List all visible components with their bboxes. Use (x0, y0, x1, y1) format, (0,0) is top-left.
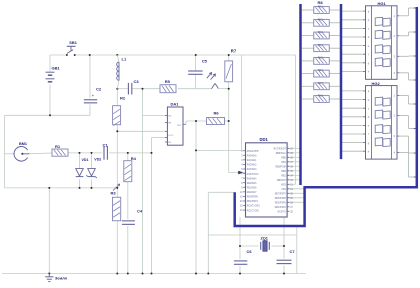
svg-text:DD1: DD1 (260, 137, 269, 142)
svg-text:RA1/AN1: RA1/AN1 (247, 159, 257, 162)
svg-text:0.7%: 0.7% (168, 135, 173, 137)
svg-text:R8.3: R8.3 (318, 32, 324, 34)
svg-text:L1: L1 (122, 57, 127, 62)
svg-text:RB0/INT: RB0/INT (277, 180, 286, 182)
svg-text:R8.6: R8.6 (318, 70, 324, 72)
svg-text:RD6/PSP6: RD6/PSP6 (275, 198, 287, 200)
svg-text:R2: R2 (120, 96, 126, 101)
svg-text:C6: C6 (247, 249, 253, 254)
svg-text:R8.8: R8.8 (318, 96, 324, 98)
svg-text:RD0/PSP0: RD0/PSP0 (247, 197, 259, 199)
svg-text:RD4/PSP4: RD4/PSP4 (275, 207, 287, 209)
svg-text:SB1: SB1 (69, 40, 77, 45)
svg-text:R3: R3 (111, 191, 117, 196)
svg-text:RB1: RB1 (281, 176, 286, 178)
svg-text:R8: R8 (318, 0, 324, 5)
svg-text:RB2: RB2 (281, 171, 286, 173)
svg-text:RE1/AN6: RE1/AN6 (247, 186, 257, 189)
svg-text:R7: R7 (231, 49, 237, 54)
svg-text:C4: C4 (137, 209, 143, 214)
svg-text:RA3/AN3: RA3/AN3 (247, 168, 257, 171)
svg-text:RE0/AN5: RE0/AN5 (247, 182, 257, 185)
svg-text:C1: C1 (103, 143, 109, 148)
svg-text:RD7/PSP7: RD7/PSP7 (275, 194, 287, 196)
svg-text:BM1: BM1 (19, 142, 27, 146)
svg-text:GB1: GB1 (52, 66, 61, 71)
svg-text:RB4: RB4 (281, 162, 286, 164)
svg-text:RA4/T0CKI: RA4/T0CKI (247, 173, 259, 176)
svg-text:RC1/T1OSI: RC1/T1OSI (247, 210, 259, 212)
svg-text:R1: R1 (55, 144, 61, 149)
svg-text:RA0/AN0: RA0/AN0 (247, 154, 257, 157)
svg-text:VSS: VSS (281, 189, 286, 191)
svg-text:R8.4: R8.4 (318, 45, 324, 47)
svg-text:R5: R5 (165, 79, 171, 84)
svg-text:RA2/AN2: RA2/AN2 (247, 164, 257, 167)
svg-text:RB3/PGM: RB3/PGM (275, 167, 285, 169)
svg-text:ZQ1: ZQ1 (261, 236, 268, 240)
svg-text:R6: R6 (214, 111, 220, 116)
svg-text:C5: C5 (202, 59, 208, 64)
svg-text:C3: C3 (134, 79, 140, 84)
svg-text:RC7/RX/DT: RC7/RX/DT (274, 149, 287, 151)
svg-text:VD2: VD2 (94, 158, 101, 162)
svg-text:RA5/AN4: RA5/AN4 (247, 177, 257, 180)
svg-text:RE2/AN7: RE2/AN7 (247, 191, 257, 194)
svg-text:RD5/PSP5: RD5/PSP5 (275, 203, 287, 205)
svg-text:RC0/T1OSO: RC0/T1OSO (247, 206, 260, 208)
svg-text:VD1: VD1 (82, 158, 89, 162)
svg-text:HG1: HG1 (378, 1, 387, 6)
svg-text:C2: C2 (96, 87, 102, 92)
svg-text:RD1/PSP1: RD1/PSP1 (247, 201, 259, 203)
svg-text:RC6/TX: RC6/TX (278, 212, 287, 214)
svg-text:C7: C7 (290, 249, 296, 254)
svg-text:MCLR/VPP: MCLR/VPP (247, 151, 259, 153)
svg-text:R8.5: R8.5 (318, 58, 324, 60)
svg-text:OUT: OUT (177, 125, 182, 127)
svg-text:DA1: DA1 (171, 102, 180, 107)
svg-text:R8.7: R8.7 (318, 83, 324, 85)
svg-text:R4: R4 (131, 156, 137, 161)
svg-text:R8.2: R8.2 (318, 19, 324, 21)
svg-text:Земля: Земля (55, 276, 67, 280)
svg-text:VDD: VDD (281, 185, 286, 187)
svg-text:RB5: RB5 (281, 158, 286, 160)
svg-text:HG2: HG2 (372, 81, 381, 86)
svg-text:R8.1: R8.1 (318, 7, 324, 9)
svg-text:RB6/PGC: RB6/PGC (276, 153, 286, 155)
